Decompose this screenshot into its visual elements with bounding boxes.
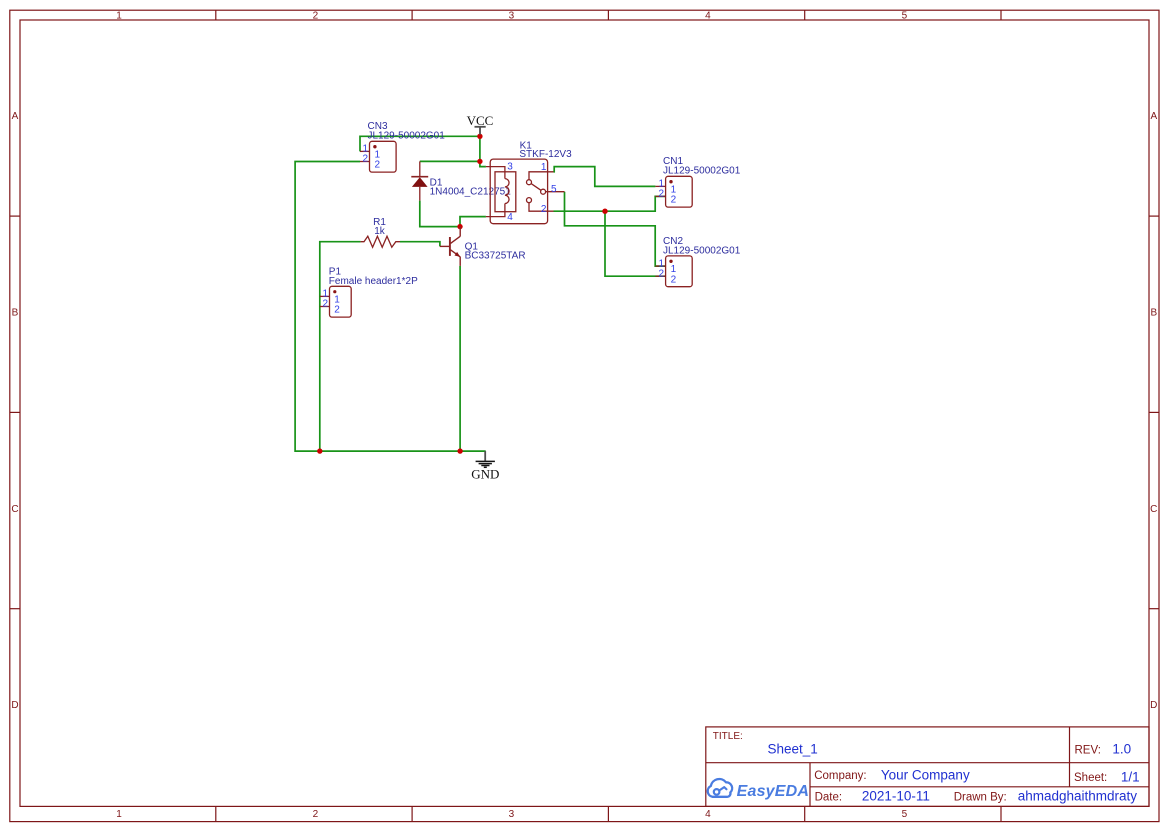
svg-text:1: 1: [116, 809, 122, 820]
wire Q1 emitter down to GND rail: [459, 266, 461, 451]
svg-text:Company:: Company:: [814, 770, 866, 782]
svg-text:1: 1: [671, 264, 677, 275]
svg-text:JL129-50002G01: JL129-50002G01: [663, 245, 741, 256]
svg-text:Female header1*2P: Female header1*2P: [329, 276, 418, 287]
svg-text:BC33725TAR: BC33725TAR: [465, 250, 526, 261]
P1 pin 1: [320, 289, 341, 306]
svg-text:A: A: [1150, 111, 1157, 122]
junction GND rail at Q1 emitter: [457, 448, 462, 453]
svg-text:4: 4: [507, 212, 513, 223]
junction node D (relay pin2 / CN1 / CN2): [602, 209, 607, 214]
junction GND rail at P1 branch: [317, 448, 322, 453]
P1 pin 2: [320, 299, 341, 316]
svg-text:5: 5: [902, 11, 908, 22]
svg-text:ahmadghaithmdraty: ahmadghaithmdraty: [1018, 789, 1138, 804]
wire D1 anode down to node C: [420, 201, 460, 227]
wire node B to relay coil pin 3: [480, 161, 486, 166]
svg-text:2: 2: [362, 154, 368, 165]
svg-text:A: A: [12, 111, 19, 122]
svg-text:C: C: [1150, 504, 1157, 515]
wire R1 right to Q1 base: [400, 242, 440, 247]
svg-text:1N4004_C212751: 1N4004_C212751: [430, 187, 512, 198]
K1 switch arm to common pin 5: [531, 184, 564, 196]
svg-text:2: 2: [313, 11, 319, 22]
svg-text:2: 2: [671, 274, 677, 285]
svg-text:2: 2: [375, 160, 381, 171]
svg-text:EasyEDA: EasyEDA: [737, 783, 810, 800]
svg-text:2: 2: [659, 189, 665, 200]
junction node B (D1 cathode / relay coil): [477, 159, 482, 164]
CN1 pin 2: [655, 189, 676, 206]
wire VCC node down to node B: [479, 136, 481, 161]
svg-text:4: 4: [705, 809, 711, 820]
svg-text:3: 3: [509, 11, 515, 22]
wire R1 left to P1 rail: [320, 242, 361, 451]
transistor Q1: [440, 227, 460, 266]
K1 coil winding: [505, 179, 509, 204]
svg-text:STKF-12V3: STKF-12V3: [519, 149, 572, 160]
svg-text:1: 1: [116, 11, 122, 22]
svg-text:D: D: [1150, 700, 1157, 711]
relay K1 body: [490, 159, 547, 224]
svg-text:Date:: Date:: [815, 791, 843, 803]
K1 switch pin 2: [527, 198, 554, 215]
svg-text:VCC: VCC: [467, 113, 494, 128]
svg-text:C: C: [11, 504, 18, 515]
svg-text:D: D: [11, 700, 18, 711]
connector P1 body: [330, 286, 352, 317]
svg-text:1/1: 1/1: [1121, 769, 1140, 784]
svg-text:REV:: REV:: [1075, 744, 1101, 756]
junction at VCC node: [477, 134, 482, 139]
svg-text:4: 4: [705, 11, 711, 22]
svg-text:5: 5: [902, 809, 908, 820]
svg-text:1: 1: [541, 162, 547, 173]
svg-text:2: 2: [671, 195, 677, 206]
wire relay pin 1 to CN1 pin 1: [554, 167, 656, 187]
svg-text:2: 2: [313, 809, 319, 820]
junction node C (D1 anode / coil pin4 / Q1 collector): [457, 224, 462, 229]
svg-text:JL129-50002G01: JL129-50002G01: [368, 131, 446, 142]
svg-text:B: B: [12, 308, 19, 319]
svg-text:JL129-50002G01: JL129-50002G01: [663, 166, 741, 177]
connector CN3 body: [370, 141, 397, 172]
svg-text:3: 3: [507, 162, 513, 173]
svg-text:TITLE:: TITLE:: [713, 731, 743, 742]
title block: [706, 727, 1149, 807]
wire relay coil pin 4 to node C: [460, 217, 486, 227]
svg-text:5: 5: [551, 184, 557, 195]
svg-text:1: 1: [375, 149, 381, 160]
svg-text:1k: 1k: [374, 226, 386, 237]
svg-text:2: 2: [334, 305, 340, 316]
wire D1 cathode to node B: [420, 160, 480, 162]
wire relay pin 2 to CN1 pin 2: [554, 196, 666, 211]
CN3 pin 1: [360, 144, 381, 161]
svg-text:GND: GND: [471, 466, 499, 481]
connector CN2 body: [666, 256, 693, 287]
connector CN1 body: [666, 176, 693, 207]
EasyEDA logo: [708, 779, 809, 800]
svg-text:2021-10-11: 2021-10-11: [862, 789, 930, 804]
svg-text:1: 1: [334, 294, 340, 305]
power symbol VCC: [467, 113, 494, 135]
CN3 pin 2: [360, 154, 381, 171]
wire relay pin 5 to CN2 pin 1: [565, 192, 666, 266]
svg-text:2: 2: [322, 299, 328, 310]
wire node D to CN2 pin 2: [605, 211, 666, 276]
CN1 pin 1: [655, 179, 676, 196]
svg-text:B: B: [1150, 308, 1157, 319]
svg-text:1.0: 1.0: [1112, 742, 1131, 757]
CN2 pin 2: [655, 268, 676, 285]
K1 coil pin 4: [486, 204, 513, 224]
svg-text:2: 2: [659, 268, 665, 279]
diode D1: [411, 161, 428, 200]
ground symbol GND: [471, 451, 499, 481]
CN2 pin 1: [655, 258, 676, 275]
resistor R1: [361, 236, 400, 247]
wire CN3 pin1 to VCC node: [360, 136, 480, 151]
svg-text:Your Company: Your Company: [881, 767, 970, 782]
svg-text:Drawn By:: Drawn By:: [954, 791, 1007, 803]
svg-text:Sheet:: Sheet:: [1074, 772, 1107, 784]
wire CN3 pin2 left rail down to GND rail: [295, 162, 486, 452]
K1 coil pin 3: [486, 162, 513, 179]
svg-text:3: 3: [509, 809, 515, 820]
svg-text:Sheet_1: Sheet_1: [768, 742, 818, 757]
K1 switch pin 1: [527, 162, 554, 185]
svg-text:2: 2: [541, 204, 547, 215]
